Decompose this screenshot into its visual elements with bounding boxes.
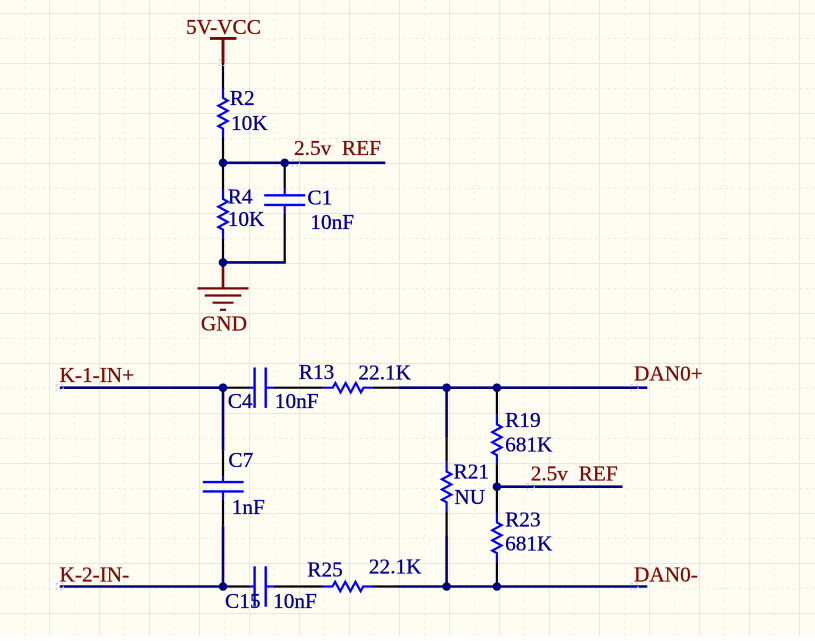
junction R21 tap bottom rail (442, 582, 451, 591)
wire R21 top stub (445, 388, 448, 438)
svg-text:10nF: 10nF (273, 589, 317, 613)
wire net DAN0+ (top rail right) (398, 386, 647, 389)
capacitor C1 (264, 163, 305, 263)
svg-text:2.5v REF: 2.5v REF (294, 136, 381, 160)
label R19 value 681K (505, 433, 553, 457)
svg-text:R13: R13 (299, 360, 335, 384)
junction R19 tap top rail (493, 383, 502, 392)
svg-text:5V-VCC: 5V-VCC (186, 15, 261, 39)
junction R21 tap top rail (442, 383, 451, 392)
wire R4/C1 bottom to GND (223, 261, 286, 264)
label R13 value 22.1K (358, 361, 411, 385)
label net 5V-VCC (186, 15, 261, 39)
label R21 value NU (454, 485, 485, 509)
anchor mark power port (220, 60, 227, 66)
wire net K-1-IN+ (top rail left) (60, 386, 224, 389)
resistor R4 (218, 163, 227, 263)
label R2 value 10K (231, 111, 268, 135)
svg-text:GND: GND (201, 312, 247, 336)
svg-text:C1: C1 (307, 185, 332, 209)
svg-text:22.1K: 22.1K (369, 555, 422, 579)
label net 2.5v REF (top) (294, 136, 381, 160)
label R19 designator (505, 408, 541, 432)
capacitor C15 (223, 566, 298, 606)
label R21 designator (454, 459, 490, 483)
svg-text:R19: R19 (505, 408, 541, 432)
label C4 value 10nF (275, 389, 319, 413)
svg-text:K-2-IN-: K-2-IN- (60, 562, 130, 586)
svg-text:10K: 10K (228, 207, 265, 231)
wire C7 top stub (222, 388, 225, 451)
svg-text:22.1K: 22.1K (358, 361, 411, 385)
power port 5V-VCC (210, 38, 236, 63)
svg-text:R25: R25 (307, 558, 343, 582)
resistor R21 (442, 437, 451, 536)
svg-text:R2: R2 (230, 86, 255, 110)
label C7 designator (228, 448, 253, 472)
label net 2.5v REF (mid) (531, 461, 618, 485)
junction R19/R23/2.5vREF (493, 482, 502, 491)
label net DAN0+ (634, 362, 703, 386)
svg-text:DAN0+: DAN0+ (634, 362, 703, 386)
svg-text:R23: R23 (505, 507, 541, 531)
resistor R25 (298, 582, 397, 591)
svg-text:DAN0-: DAN0- (634, 562, 698, 586)
svg-text:1nF: 1nF (232, 495, 265, 519)
anchor mark DAN0- (631, 584, 638, 590)
capacitor C7 (203, 451, 244, 526)
svg-text:681K: 681K (505, 532, 553, 556)
label GND (201, 312, 247, 336)
junction C4/C7 tap top rail (219, 383, 228, 392)
wire net DAN0- (bottom rail right) (398, 585, 648, 588)
anchor mark 2.5v REF mid (527, 484, 534, 490)
svg-text:C7: C7 (228, 448, 253, 472)
label C1 designator (307, 185, 332, 209)
wire C7 bottom stub (222, 526, 225, 587)
anchor mark K-2-IN- (56, 584, 63, 590)
wire R21 bottom stub (445, 536, 448, 587)
wire net K-2-IN- (bottom rail left) (60, 585, 224, 588)
wire net 2.5v REF (top) (223, 162, 385, 165)
resistor R23 (492, 487, 501, 587)
label net K-1-IN+ (60, 363, 135, 387)
label R4 designator (228, 185, 253, 209)
label C15 designator (225, 589, 261, 613)
svg-text:K-1-IN+: K-1-IN+ (60, 363, 135, 387)
label R13 designator (299, 360, 335, 384)
wire net 2.5v REF (mid) (497, 485, 623, 488)
label C1 value 10nF (310, 210, 354, 234)
label net K-2-IN- (60, 562, 130, 586)
svg-text:10nF: 10nF (275, 389, 319, 413)
junction R4/GND (219, 258, 228, 267)
junction R2/R4/2.5vREF (219, 159, 228, 168)
svg-text:R4: R4 (228, 185, 253, 209)
anchor mark 2.5v REF top (293, 160, 300, 166)
ground GND (198, 262, 249, 309)
label C4 designator (228, 389, 253, 413)
junction R23 tap bottom rail (493, 582, 502, 591)
label R23 designator (505, 507, 541, 531)
resistor R2 (218, 64, 227, 163)
svg-text:C4: C4 (228, 389, 253, 413)
svg-text:R21: R21 (454, 459, 490, 483)
svg-text:10K: 10K (231, 111, 268, 135)
label R23 value 681K (505, 532, 553, 556)
junction C1 top tap (280, 159, 289, 168)
anchor mark DAN0+ (631, 385, 638, 391)
capacitor C4 (223, 368, 298, 408)
svg-text:681K: 681K (505, 433, 553, 457)
label R25 designator (307, 558, 343, 582)
label net DAN0- (634, 562, 698, 586)
junction C15/C7 tap bottom rail (219, 582, 228, 591)
resistor R13 (298, 383, 398, 392)
svg-text:2.5v REF: 2.5v REF (531, 461, 618, 485)
label R4 value 10K (228, 207, 265, 231)
label C7 value 1nF (232, 495, 265, 519)
svg-text:10nF: 10nF (310, 210, 354, 234)
label C15 value 10nF (273, 589, 317, 613)
label R2 designator (230, 86, 255, 110)
resistor R19 (492, 388, 501, 487)
anchor mark K-1-IN+ (56, 385, 63, 391)
svg-text:NU: NU (454, 485, 485, 509)
label R25 value 22.1K (369, 555, 422, 579)
svg-text:C15: C15 (225, 589, 261, 613)
